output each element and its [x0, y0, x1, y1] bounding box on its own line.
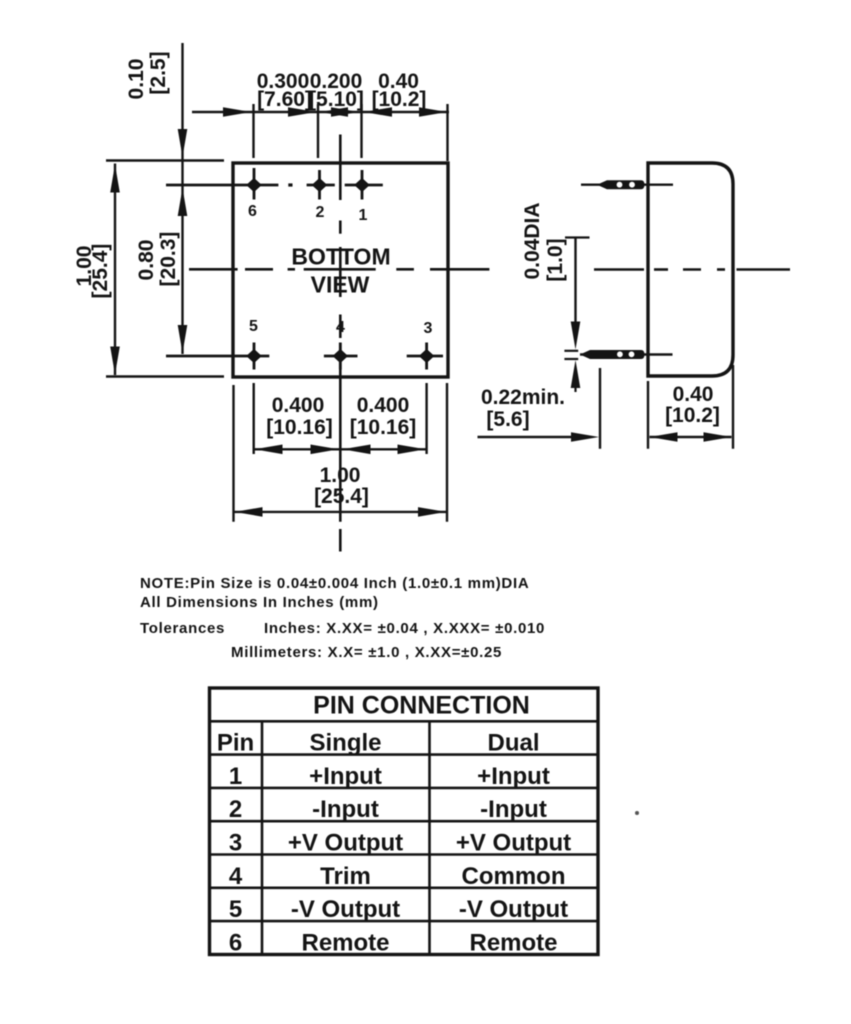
svg-text:5: 5 [229, 896, 242, 923]
side view top pin body [597, 180, 645, 189]
bottom view package outline [233, 163, 448, 377]
svg-text:[7.60]: [7.60] [257, 88, 312, 111]
svg-text:6: 6 [229, 929, 242, 956]
svg-text:Millimeters: X.X= ±1.0 , X.XX=: Millimeters: X.X= ±1.0 , X.XX=±0.25 [231, 644, 502, 661]
svg-text:6: 6 [248, 203, 257, 220]
svg-text:[10.16]: [10.16] [350, 416, 417, 439]
pin 2 [318, 170, 321, 200]
svg-text:[5.10]: [5.10] [309, 88, 364, 111]
pin row line bottom (through pins 5,4,3) [166, 355, 269, 358]
svg-text:Common: Common [462, 863, 566, 890]
svg-text:-V Output: -V Output [459, 896, 568, 923]
svg-text:1: 1 [359, 207, 368, 224]
pin 4 [339, 343, 342, 370]
svg-text:[25.4]: [25.4] [314, 485, 369, 508]
pin 5 [253, 343, 256, 370]
pin row line top (through pins 6,2,1) [166, 184, 278, 187]
svg-text:1: 1 [229, 763, 242, 790]
dim 1.00 [25.4] vertical line [114, 164, 116, 376]
svg-text:PIN CONNECTION: PIN CONNECTION [313, 692, 530, 720]
extension line box bottom-left [106, 375, 224, 377]
svg-text:[2.5]: [2.5] [147, 51, 170, 94]
svg-text:Single: Single [309, 730, 381, 757]
svg-text:[20.3]: [20.3] [157, 232, 180, 287]
extension lines below bottom view [232, 385, 234, 522]
svg-text:-V Output: -V Output [291, 896, 400, 923]
svg-text:[25.4]: [25.4] [89, 244, 112, 299]
svg-text:5: 5 [249, 318, 258, 335]
pin 1 [361, 170, 364, 200]
table column lines [261, 721, 264, 954]
svg-text:Tolerances: Tolerances [140, 620, 225, 637]
side view bottom pin body [580, 350, 645, 359]
svg-text:NOTE:Pin Size is 0.04±0.004 In: NOTE:Pin Size is 0.04±0.004 Inch (1.0±0.… [140, 575, 529, 592]
extension line box top-left [106, 159, 224, 161]
pin 3 [425, 343, 428, 370]
pin connection table frame [210, 688, 599, 955]
svg-text:+Input: +Input [477, 763, 550, 790]
side view bottom pin lead [580, 353, 673, 355]
svg-text:-Input: -Input [312, 796, 379, 823]
svg-text:Remote: Remote [301, 929, 389, 956]
svg-text:1.00: 1.00 [320, 464, 361, 487]
extension lines below side view [599, 368, 601, 449]
dim line 0.22 min [478, 436, 573, 438]
pin diameter edge ticks [564, 350, 578, 352]
pin 6 [253, 168, 256, 200]
svg-text:+Input: +Input [309, 763, 382, 790]
svg-text:+V Output: +V Output [456, 830, 571, 857]
svg-text:Inches: X.XX= ±0.04 , X.XXX= ±: Inches: X.XX= ±0.04 , X.XXX= ±0.010 [264, 620, 545, 637]
svg-text:BOTTOM: BOTTOM [291, 244, 390, 270]
dim line 0.40 [650, 436, 732, 438]
svg-text:3: 3 [424, 320, 433, 337]
table row lines [210, 720, 599, 723]
svg-text:Trim: Trim [320, 863, 371, 890]
dim line 0.400 / 0.400 [254, 448, 427, 450]
dim 0.10 [2.5] vertical line with arrow [181, 43, 183, 354]
vertical centerline of bottom view [339, 135, 342, 201]
svg-text:[10.2]: [10.2] [372, 88, 427, 111]
svg-text:0.10: 0.10 [125, 59, 148, 100]
svg-text:2: 2 [229, 796, 242, 823]
svg-text:0.400: 0.400 [272, 394, 325, 417]
svg-text:-Input: -Input [480, 796, 547, 823]
svg-text:VIEW: VIEW [311, 272, 370, 298]
svg-text:3: 3 [229, 830, 242, 857]
svg-text:[1.0]: [1.0] [544, 238, 567, 281]
svg-text:0.400: 0.400 [357, 394, 410, 417]
svg-text:All Dimensions In Inches (mm): All Dimensions In Inches (mm) [140, 594, 379, 611]
svg-text:+V Output: +V Output [288, 830, 403, 857]
top dimension extension lines [252, 104, 254, 158]
stray speck [635, 811, 639, 815]
side view package outline [648, 163, 733, 376]
svg-text:Dual: Dual [487, 730, 539, 757]
side view top pin lead [581, 183, 673, 185]
svg-text:[10.16]: [10.16] [266, 416, 333, 439]
svg-text:[10.2]: [10.2] [665, 404, 720, 427]
dim line 1.00 [25.4] horizontal [234, 511, 448, 513]
side view horizontal centerline [594, 268, 644, 271]
dim 0.04 DIA arrows [565, 236, 590, 238]
svg-text:[5.6]: [5.6] [486, 408, 529, 431]
top dimension line 0.300 / 0.200 / 0.40 [192, 111, 449, 113]
svg-text:0.80: 0.80 [135, 240, 158, 281]
svg-text:0.04DIA: 0.04DIA [521, 202, 544, 279]
svg-text:4: 4 [229, 863, 243, 890]
svg-text:2: 2 [316, 204, 325, 221]
svg-text:Pin: Pin [217, 730, 254, 757]
svg-text:4: 4 [336, 319, 345, 336]
svg-text:0.40: 0.40 [673, 383, 714, 406]
horizontal centerline of bottom view [189, 268, 238, 271]
svg-text:Remote: Remote [469, 929, 557, 956]
svg-text:0.22min.: 0.22min. [481, 386, 565, 409]
